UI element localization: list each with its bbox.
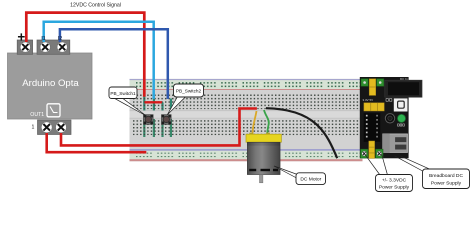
svg-text:I2: I2 [58,36,62,42]
callout breadboard DC power supply [423,169,470,189]
svg-text:Breadboard DC: Breadboard DC [429,173,463,179]
wire red OUT1 terminal1 to bottom rail [47,133,147,152]
module silkscreen marks [398,124,405,126]
svg-text:DC Motor: DC Motor [300,177,321,183]
module green screw terminal top B [377,79,384,86]
wire red 12V from + to breadboard [26,13,144,97]
wire red OUT1 terminal2 to motor column [61,109,257,146]
svg-text:12VDC Control Signal: 12VDC Control Signal [70,3,121,9]
pushbutton PB_Switch2 [162,115,172,125]
module DC barrel jack [385,77,422,97]
svg-text:1: 1 [32,125,35,131]
svg-text:Power Supply: Power Supply [431,180,462,186]
svg-text:Power Supply: Power Supply [379,184,410,190]
module pushbutton [385,114,394,123]
Opta terminal block OUT1 [38,120,72,135]
module USB connector [383,134,408,153]
callout PB_Switch2 [167,84,203,115]
svg-text:I1: I1 [41,36,45,42]
wire cyan I1 [44,22,154,99]
module yellow jumper mid [364,103,384,111]
module pin headers [364,113,381,142]
wire green motor lead [264,110,269,136]
svg-text:+: + [17,30,25,45]
breadboard power supply module [360,77,409,158]
module small white marks [386,99,392,102]
Opta terminal block + (12V in) [17,40,32,54]
module power switch [394,98,408,111]
svg-text:Arduino Opta: Arduino Opta [22,78,79,89]
svg-text:3.3V 5V: 3.3V 5V [363,98,374,102]
wire yellow motor lead [253,111,257,136]
Opta terminal block I1 I2 [37,40,70,54]
callout breadboard DC power supply leader lines [395,156,430,172]
svg-text:PB_Switch1: PB_Switch1 [110,91,136,96]
module power LED [398,114,406,122]
callout PB_Switch1 [109,87,147,116]
svg-text:PB_Switch2: PB_Switch2 [176,89,202,94]
breadboard [130,79,363,162]
Arduino Opta body [8,53,93,119]
svg-text:+/- 3.3VDC: +/- 3.3VDC [382,178,407,184]
module yellow jumper top [369,79,376,96]
module green screw terminal bottom A [361,149,368,158]
pushbutton PB_Switch1 [144,115,154,125]
callout 3.3VDC power supply [376,175,413,192]
module green screw terminal bottom B [376,149,383,158]
module green screw terminal top A [361,79,368,86]
breadboard hole grid [133,94,360,135]
module yellow jumper bottom [369,141,375,158]
DC motor M1 [246,133,281,183]
node highlight columns under switches [143,97,172,138]
callout DC Motor [274,166,326,185]
wire blue I2 [60,29,168,99]
svg-text:OUT1: OUT1 [30,112,44,118]
wire red jumper row to switch2 column [145,101,162,103]
callout 3.3VDC power supply leader lines [365,154,388,175]
OUT1 relay icon [30,104,60,118]
wire black motor negative to bottom rail [266,108,337,158]
